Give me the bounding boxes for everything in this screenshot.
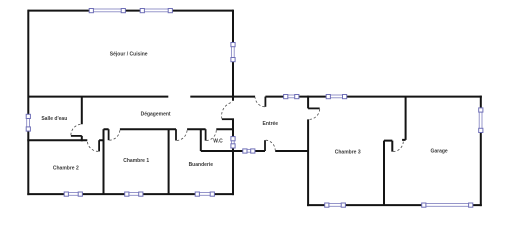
window: wc east (central wall) xyxy=(231,137,235,148)
svg-text:Séjour / Cuisine: Séjour / Cuisine xyxy=(110,52,148,58)
door: salle d'eau swing arc xyxy=(71,124,81,135)
svg-text:Dégagement: Dégagement xyxy=(141,112,171,118)
wall: wc bottom (y=151) xyxy=(201,150,233,152)
door: chambre 2 leaf xyxy=(98,140,100,151)
svg-text:Chambre 1: Chambre 1 xyxy=(123,158,149,164)
wall: left exterior (x=28) xyxy=(27,10,29,196)
wall: chambre 2 top (y=139.6) xyxy=(27,139,103,141)
door: chambre 1 leaf xyxy=(108,129,110,140)
room label: Chambre 1 xyxy=(123,158,149,164)
room label: Garage xyxy=(430,148,447,154)
svg-text:Garage: Garage xyxy=(430,148,447,154)
window: chambre 2 south xyxy=(64,192,82,196)
wall: right of séjour / central wall (x=232.7) xyxy=(232,10,234,196)
window: garage door south xyxy=(422,203,473,207)
wall: chambre2/chambre1 separator (x=102.4) xyxy=(103,129,105,194)
room label: Entrée xyxy=(263,121,279,127)
room label: Chambre 3 xyxy=(335,149,361,155)
wall: séjour bottom / dégagement top (y=96) xyxy=(28,96,233,98)
window: séjour top-left xyxy=(89,9,125,13)
door: entrée south swing arc xyxy=(266,140,275,150)
wall: entrée top (y=96) xyxy=(233,96,308,98)
svg-text:Chambre 2: Chambre 2 xyxy=(53,165,79,171)
wall: salle d'eau right (x=81.5) xyxy=(81,97,83,142)
window: entrée south xyxy=(243,149,255,153)
door: wc leaf xyxy=(205,129,207,140)
window: buanderie south xyxy=(195,192,214,196)
window: chambre 1 south xyxy=(125,192,143,196)
wall: chambre1/wc/buanderie top (y=128.6) xyxy=(104,128,234,130)
room label: Salle d'eau xyxy=(41,116,67,122)
door: chambre 1 swing arc xyxy=(109,130,120,140)
door: chambre 2 swing arc xyxy=(87,141,98,151)
door: dégagement-entrée swing arc xyxy=(222,102,233,119)
door: entrance swing arc xyxy=(255,97,264,106)
room label: Buanderie xyxy=(189,162,214,168)
door: salle d'eau leaf xyxy=(71,135,82,137)
wall: chambre3/garage separator upper (x=404.5) xyxy=(402,97,406,140)
door: wc swing arc xyxy=(206,130,216,141)
door: garage swing arc xyxy=(393,141,403,151)
room label: Chambre 2 xyxy=(53,165,79,171)
svg-text:W.C: W.C xyxy=(213,139,223,145)
wall: séjour top (left building, y=10) xyxy=(28,10,233,12)
wall: right building right (x=480.5) xyxy=(480,96,482,207)
wall: chambre3/garage separator jog (y=140) xyxy=(384,141,392,152)
wall: right building bottom (y=204.5) xyxy=(307,204,482,206)
svg-text:Buanderie: Buanderie xyxy=(189,162,214,168)
door: chambre 3 leaf xyxy=(308,107,320,109)
door: chambre 3 swing arc xyxy=(310,109,320,119)
window: salle d'eau west (left wall) xyxy=(26,114,30,131)
wall: entrée bottom (y=150.9) xyxy=(233,150,308,152)
svg-text:Chambre 3: Chambre 3 xyxy=(335,149,361,155)
door: buanderie leaf xyxy=(175,129,177,140)
svg-text:Salle d'eau: Salle d'eau xyxy=(41,116,67,122)
wall: wc left (x=200.5) xyxy=(200,129,202,151)
wall: chambre1/buanderie separator (x=168.3) xyxy=(168,129,170,194)
room label: Dégagement xyxy=(141,112,171,118)
room label: Séjour / Cuisine xyxy=(110,52,148,58)
room label: W.C xyxy=(213,139,223,145)
window: garage east (right wall) xyxy=(479,108,483,133)
wall: chambre3/garage separator lower (x=384.5) xyxy=(383,141,385,206)
door: dégagement-entrée leaf xyxy=(222,118,234,120)
window: chambre 3 north xyxy=(326,95,347,99)
door: entrance leaf xyxy=(264,97,266,107)
svg-text:Entrée: Entrée xyxy=(263,121,279,127)
door: buanderie swing arc xyxy=(177,130,187,141)
door: entrée south leaf xyxy=(264,140,266,151)
wall: right building left (x=307) xyxy=(307,96,309,207)
window: entrée north xyxy=(284,95,299,99)
window: chambre 3 south xyxy=(325,203,346,207)
window: séjour east (right wall) xyxy=(231,43,235,62)
wall: right building top (y=96) xyxy=(308,96,482,98)
wall: left building bottom (y=193.5) xyxy=(27,193,234,195)
window: séjour top-right xyxy=(140,9,172,13)
